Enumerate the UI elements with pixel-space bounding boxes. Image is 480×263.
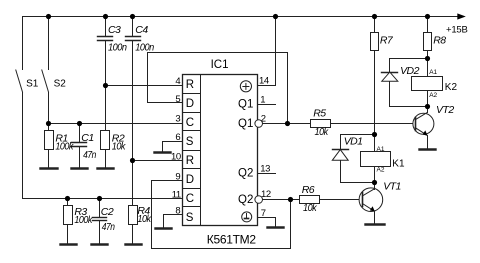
node Q1bar-D1 xyxy=(285,121,290,126)
svg-text:47n: 47n xyxy=(83,149,96,161)
resistor R4 xyxy=(129,161,138,244)
capacitor C3 xyxy=(98,17,113,86)
svg-text:Q1: Q1 xyxy=(238,118,253,130)
svg-text:Q2: Q2 xyxy=(238,194,253,206)
svg-text:Q1: Q1 xyxy=(238,99,253,111)
svg-text:C: C xyxy=(186,117,194,129)
resistor R3 xyxy=(64,199,73,244)
svg-text:Q2: Q2 xyxy=(238,168,253,180)
svg-text:11: 11 xyxy=(172,190,181,201)
svg-text:R6: R6 xyxy=(302,184,315,196)
svg-text:IC1: IC1 xyxy=(211,59,229,71)
ground R3 xyxy=(61,243,77,245)
svg-text:100k: 100k xyxy=(74,214,93,226)
relay K1 xyxy=(361,152,391,183)
svg-text:A1: A1 xyxy=(377,146,385,153)
svg-text:D: D xyxy=(186,98,194,110)
svg-text:A2: A2 xyxy=(377,167,385,174)
node clock1-R1 xyxy=(46,121,51,126)
inverter circle pin12 xyxy=(255,196,263,204)
flag pin7 gnd symbol xyxy=(242,212,252,222)
svg-text:R8: R8 xyxy=(433,35,446,47)
switch S1 xyxy=(16,17,23,199)
transistor VT1 xyxy=(359,183,383,224)
svg-text:100n: 100n xyxy=(108,41,127,53)
node rail-C3 xyxy=(103,14,108,19)
node Q2bar-D2 xyxy=(288,197,293,202)
switch S2 xyxy=(42,17,49,124)
node rail-R8 xyxy=(425,14,430,19)
svg-text:VD2: VD2 xyxy=(400,65,419,77)
node VD1-R7 xyxy=(372,132,377,137)
svg-text:C2: C2 xyxy=(101,206,114,218)
svg-text:3: 3 xyxy=(175,113,180,124)
wire pin9 feedback Q2bar to D2 xyxy=(290,200,292,249)
svg-text:R: R xyxy=(186,155,194,167)
diode VD2 xyxy=(382,59,428,107)
resistor R6 xyxy=(300,196,320,204)
inverter circle pin2 xyxy=(255,120,263,128)
svg-text:VT1: VT1 xyxy=(383,181,401,193)
svg-text:10: 10 xyxy=(171,152,181,163)
node clock1-C1 xyxy=(77,121,82,126)
ground pin7 xyxy=(268,226,284,228)
svg-text:13: 13 xyxy=(260,164,270,175)
svg-text:К561ТМ2: К561ТМ2 xyxy=(207,232,257,246)
node clock2-C2 xyxy=(97,196,102,201)
svg-text:VT2: VT2 xyxy=(436,104,454,116)
node rail-S2 xyxy=(46,14,51,19)
capacitor C2 xyxy=(93,199,107,244)
wire pin12 to R6 xyxy=(263,199,300,201)
wire clock2 node to IC pin11 xyxy=(23,198,183,200)
svg-text:+15В: +15В xyxy=(446,25,468,36)
svg-text:10k: 10k xyxy=(315,126,329,138)
svg-text:S2: S2 xyxy=(54,78,67,89)
resistor R1 xyxy=(45,124,54,168)
wire clock1 node to IC pin3 xyxy=(49,123,183,125)
relay K2 xyxy=(412,77,443,107)
wire pin14 to rail xyxy=(258,85,276,87)
svg-text:100k: 100k xyxy=(55,141,74,153)
power rail +15V xyxy=(23,16,458,18)
svg-text:C: C xyxy=(186,193,194,205)
ground R1 xyxy=(41,167,58,169)
wire pin8 to ground xyxy=(164,214,183,216)
resistor R8 xyxy=(424,17,432,77)
wire pin2 to R5 xyxy=(263,123,311,125)
pin1 stub xyxy=(258,104,276,106)
svg-text:14: 14 xyxy=(259,76,269,87)
svg-text:100n: 100n xyxy=(135,41,154,53)
svg-text:C1: C1 xyxy=(81,132,93,144)
wire R6 to VT1 base xyxy=(320,199,363,201)
wire pin5 feedback Q1bar to D1 xyxy=(148,102,183,104)
capacitor C1 xyxy=(72,124,87,168)
op IC1 box xyxy=(183,75,258,226)
svg-text:S1: S1 xyxy=(26,78,39,89)
svg-text:8: 8 xyxy=(175,206,180,217)
svg-text:R7: R7 xyxy=(380,35,394,47)
svg-text:4: 4 xyxy=(175,76,180,87)
svg-text:C3: C3 xyxy=(108,24,121,36)
wire pin10 xyxy=(133,160,183,162)
pin13 stub xyxy=(258,173,276,175)
svg-text:10k: 10k xyxy=(303,202,317,214)
resistor R5 xyxy=(311,120,331,128)
svg-text:12: 12 xyxy=(261,189,271,200)
ground VT1 xyxy=(366,223,385,225)
svg-text:D: D xyxy=(186,174,194,186)
svg-text:S: S xyxy=(186,212,194,224)
node rail-R7 xyxy=(372,14,377,19)
svg-text:1: 1 xyxy=(260,95,265,106)
svg-text:10k: 10k xyxy=(112,141,126,153)
wire R5 to VT2 base xyxy=(331,123,416,125)
ground C2 xyxy=(92,243,108,245)
svg-text:9: 9 xyxy=(175,172,180,183)
capacitor C4 xyxy=(126,17,141,161)
node VT1-collector xyxy=(372,180,377,185)
svg-text:A1: A1 xyxy=(429,69,437,76)
ground VT2 xyxy=(420,148,436,150)
svg-text:VD1: VD1 xyxy=(344,135,363,147)
diode VD1 xyxy=(332,135,374,183)
svg-text:C4: C4 xyxy=(135,24,148,36)
svg-text:7: 7 xyxy=(261,208,266,219)
node pin4-C3 xyxy=(103,83,108,88)
svg-text:10k: 10k xyxy=(137,213,151,225)
transistor VT2 xyxy=(413,107,434,149)
node clock2-R3 xyxy=(65,196,70,201)
node rail-pin14 xyxy=(273,14,278,19)
ground pin6 xyxy=(155,151,171,153)
svg-text:K1: K1 xyxy=(392,158,405,169)
resistor R7 xyxy=(371,17,379,152)
svg-text:K2: K2 xyxy=(445,82,458,93)
svg-text:S: S xyxy=(186,136,194,148)
svg-text:R: R xyxy=(186,79,194,91)
ground C1 xyxy=(72,167,88,169)
node pin10-C4 xyxy=(130,158,135,163)
ground R4 xyxy=(126,243,142,245)
flag pin14 plus symbol xyxy=(240,81,251,92)
svg-text:6: 6 xyxy=(175,132,180,143)
svg-text:R5: R5 xyxy=(313,108,326,120)
svg-text:2: 2 xyxy=(261,113,266,124)
svg-text:A2: A2 xyxy=(429,92,437,99)
wire pin7 to ground xyxy=(258,217,276,219)
wire pin6 to ground xyxy=(163,141,183,143)
node VT2-collector xyxy=(425,104,430,109)
svg-text:47n: 47n xyxy=(102,221,115,233)
ground pin8 xyxy=(156,227,172,229)
wire pin4 xyxy=(106,85,183,87)
svg-text:5: 5 xyxy=(175,94,180,105)
resistor R2 xyxy=(101,86,110,168)
ground R2 xyxy=(98,167,114,169)
arrow +15V xyxy=(457,13,466,19)
node VD2-R8 xyxy=(425,56,430,61)
node rail-C4 xyxy=(130,14,135,19)
